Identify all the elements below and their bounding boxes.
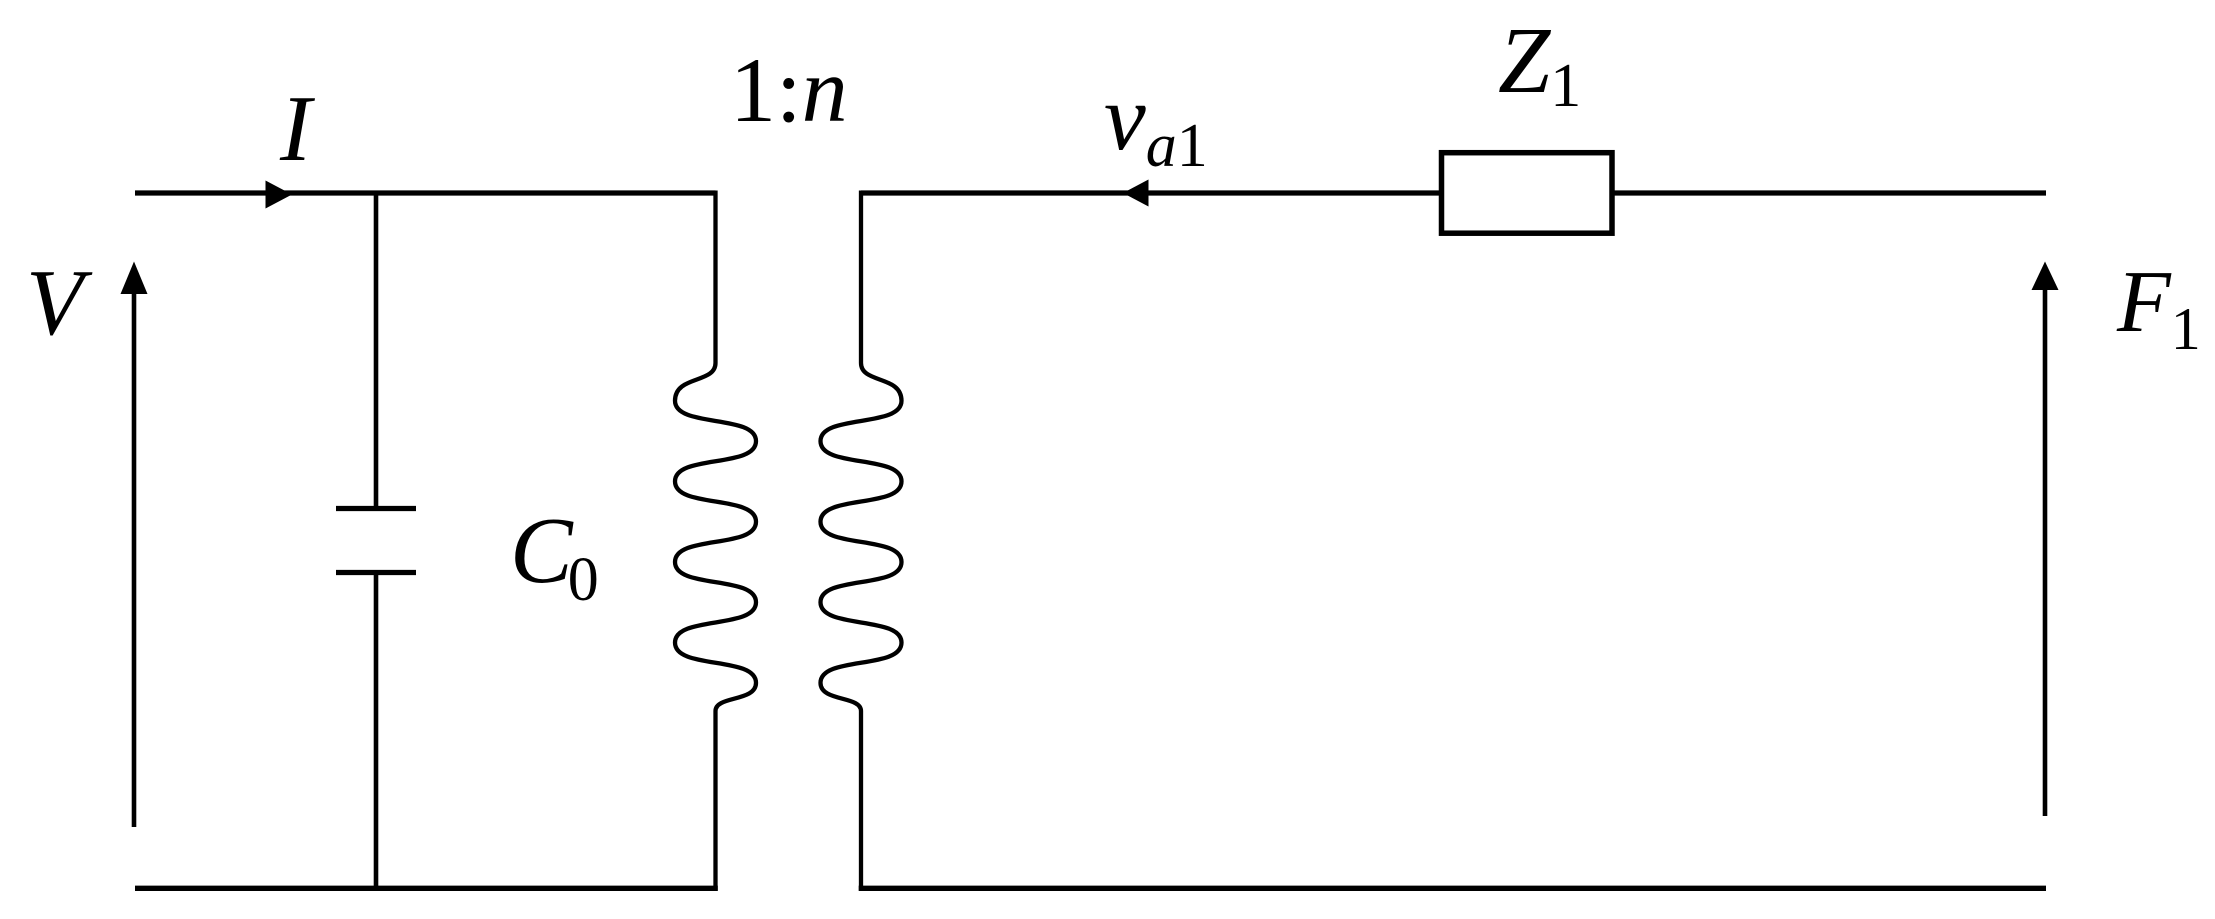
arrow F1 (force across output port) [2032,262,2059,817]
wire capacitor top lead [374,193,379,507]
svg-text:V: V [26,251,93,355]
wire top-left horizontal (V+ to transformer primary) [135,190,716,195]
arrow V (voltage across input port) [121,262,148,828]
capacitor C0 plates [336,509,416,573]
wire bottom-right horizontal (secondary return) [859,886,2046,891]
wire capacitor bottom lead [374,575,379,891]
svg-text:1:n: 1:n [730,39,848,141]
label V [26,251,93,355]
current arrow I head [266,181,293,209]
label v_a1 [1104,66,1208,180]
impedance Z1 box [1442,153,1613,234]
wire bottom-left horizontal (primary return) [135,886,718,891]
svg-text:I: I [279,77,315,181]
wire top-right horizontal (secondary to Z1 to output port) [861,190,2046,195]
label C0 [510,499,599,614]
label 1:n (transformer ratio) [730,39,848,141]
arrow head v_a1 (pointing left on top wire) [1123,180,1149,207]
label Z1 [1498,9,1581,120]
label I [279,77,315,181]
transformer secondary winding [821,191,902,891]
transformer primary winding [675,191,756,891]
label F1 [2116,254,2201,362]
